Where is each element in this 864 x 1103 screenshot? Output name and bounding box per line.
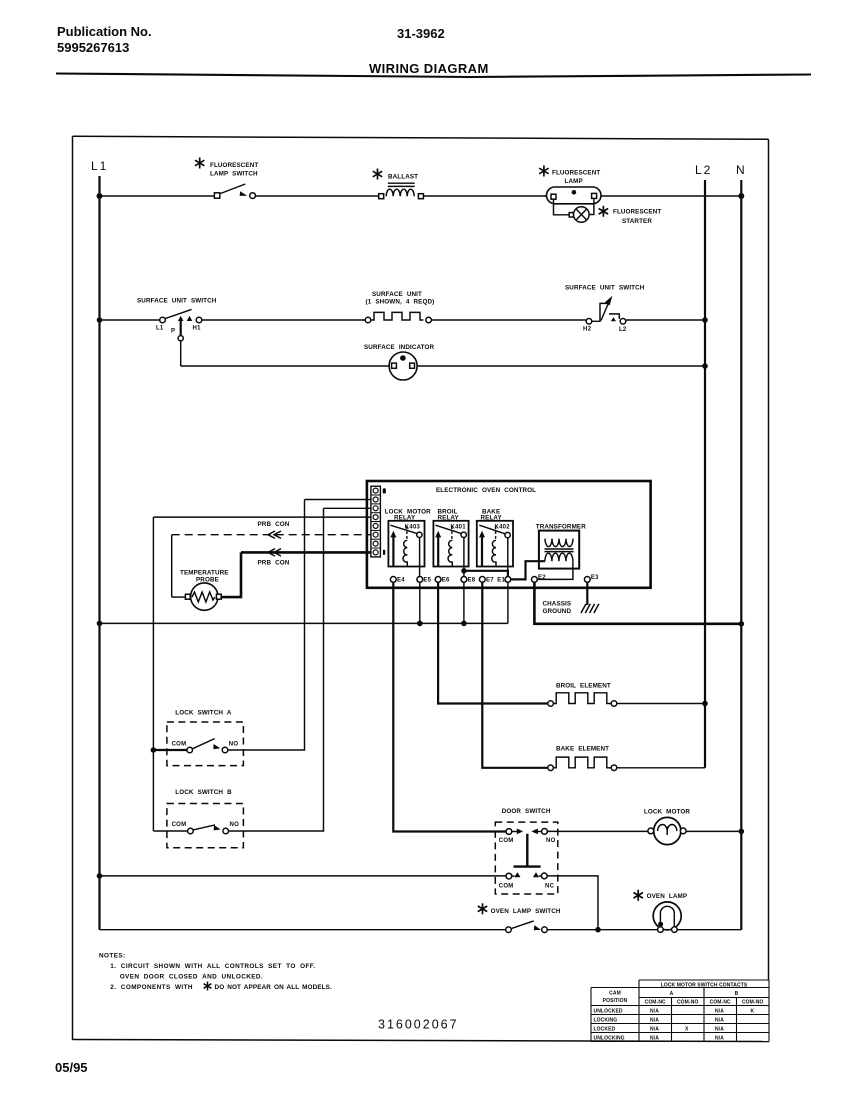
svg-text:DOOR SWITCH: DOOR SWITCH [502, 808, 551, 815]
CIRCUIT2 surface [100, 285, 706, 381]
asterisk oven lamp [634, 890, 643, 901]
wire pin4 riser to lock switches [152, 517, 154, 831]
wire door NO to lock motor [547, 830, 648, 832]
svg-text:N/A: N/A [715, 1008, 724, 1014]
wire E2 to N bus [534, 582, 741, 624]
wire L2 vertical [704, 180, 706, 768]
wire lock switch B NO riser [229, 508, 324, 831]
LOWER WIRES [100, 582, 742, 831]
terminal E6 [435, 577, 441, 583]
svg-text:N/A: N/A [650, 1008, 659, 1014]
svg-text:A: A [670, 991, 674, 997]
junction E5 bus4 [417, 621, 423, 627]
switch lock switch A [187, 747, 193, 753]
svg-text:E3: E3 [591, 575, 599, 581]
svg-text:FLUORESCENT: FLUORESCENT [210, 162, 258, 169]
svg-text:PRB CON: PRB CON [258, 560, 290, 567]
svg-text:B: B [735, 991, 739, 997]
enclosure lock switch A [167, 722, 244, 766]
wire lamp line segment b [547, 929, 657, 931]
wire E8 drop [463, 582, 465, 623]
wire pin2 lead [305, 499, 371, 501]
terminal E5 [417, 577, 423, 583]
svg-text:UNLOCKED: UNLOCKED [594, 1008, 623, 1014]
svg-text:COM: COM [172, 742, 187, 748]
terminal E7 [479, 577, 485, 583]
svg-text:E8: E8 [468, 577, 476, 583]
junction L1 bus1 [97, 193, 103, 199]
svg-text:COM: COM [499, 838, 514, 844]
header rule [56, 74, 811, 78]
asterisk ballast [373, 169, 382, 180]
svg-text:OVEN LAMP SWITCH: OVEN LAMP SWITCH [491, 908, 561, 915]
svg-text:E1: E1 [497, 577, 505, 583]
wire pin8 lead thick [241, 551, 371, 554]
junction lock switch A feed [151, 747, 157, 753]
indicator surface indicator [389, 352, 417, 380]
wire E6 drop to broil element [438, 582, 548, 703]
terminal starter [569, 213, 573, 217]
wire bus1 segment a [100, 195, 215, 197]
svg-text:COM: COM [172, 822, 187, 828]
wire lock motor to N [686, 830, 741, 832]
wire to lock switch B COM [153, 830, 187, 832]
wire K402 contact to E1 [507, 538, 509, 577]
thermistor temperature probe [191, 583, 218, 610]
wire door NC drop to lamp line [547, 876, 598, 930]
svg-text:L1: L1 [156, 325, 164, 331]
svg-text:E2: E2 [538, 575, 546, 581]
junction lamp line [595, 927, 601, 933]
wire bus4 L1 to E1 [100, 622, 508, 624]
svg-text:LOCK MOTOR: LOCK MOTOR [644, 809, 690, 816]
svg-text:N/A: N/A [715, 1026, 724, 1032]
wire bus2 segment b [202, 319, 365, 321]
HEADER [56, 24, 811, 77]
wire K401 contact to E8 [463, 538, 465, 577]
junction E8 bus4 [461, 621, 467, 627]
svg-text:LOCK MOTOR SWITCH CONTACTS: LOCK MOTOR SWITCH CONTACTS [661, 982, 748, 988]
terminal E4 [390, 577, 396, 583]
inductor ballast [379, 194, 384, 199]
junction N bus4 [739, 621, 745, 627]
svg-text:L1: L1 [91, 159, 108, 173]
svg-text:316002067: 316002067 [378, 1018, 459, 1032]
asterisk fluorescent starter [599, 206, 608, 217]
svg-text:NO: NO [229, 742, 239, 748]
connector P1 [371, 486, 381, 557]
junction L1 bus2 [97, 317, 103, 323]
svg-text:2. COMPONENTS WITH: 2. COMPONENTS WITH [110, 984, 193, 991]
wire E1 to transformer [511, 561, 545, 579]
svg-text:POSITION: POSITION [603, 998, 628, 1004]
wire bus1 segment d [601, 195, 741, 197]
svg-text:COM-NO: COM-NO [742, 1000, 763, 1006]
wire pin4 lead [153, 516, 371, 518]
LOCK SWITCHES [151, 500, 324, 848]
wire E3 to chassis ground [586, 582, 588, 605]
junction L2 bus3 [702, 363, 708, 369]
NOTES TABLE FOOTER [55, 953, 769, 1076]
terminal E3 [584, 577, 590, 583]
wire pilot to indicator bus [180, 341, 182, 366]
svg-text:K402: K402 [495, 525, 511, 531]
svg-text:COM-NC: COM-NC [645, 1000, 666, 1006]
svg-text:COM: COM [499, 883, 514, 889]
CIRCUIT1 fluorescent [100, 158, 742, 225]
border left [72, 136, 74, 1040]
junction L2 bus2 [702, 317, 708, 323]
wire L1 vertical [98, 176, 100, 930]
motor lock motor [654, 817, 681, 844]
wire E2 to transformer [537, 561, 573, 579]
wire N vertical [740, 180, 742, 930]
svg-text:LAMP SWITCH: LAMP SWITCH [210, 171, 258, 178]
wire pin6 lead dashed PRB CON [172, 534, 371, 536]
svg-text:N/A: N/A [715, 1017, 724, 1023]
svg-text:K: K [751, 1008, 755, 1014]
switch lock switch B [188, 828, 194, 834]
svg-text:Publication No.: Publication No. [57, 24, 152, 39]
switch surface unit switch right [586, 319, 592, 325]
starter fluorescent starter [574, 207, 590, 223]
wire bus2 segment a [100, 319, 160, 321]
wire bus1 segment b [256, 195, 379, 197]
svg-text:X: X [685, 1026, 689, 1032]
svg-text:L2: L2 [695, 163, 712, 177]
wire probe left vertical [171, 535, 173, 597]
svg-text:N/A: N/A [715, 1035, 724, 1041]
wire bus2 segment c [431, 319, 586, 321]
svg-text:OVEN DOOR CLOSED AND UNLOCKED.: OVEN DOOR CLOSED AND UNLOCKED. [120, 973, 263, 980]
wire L1 to door COM lower [100, 875, 507, 877]
lamp oven lamp [653, 902, 681, 930]
svg-text:CHASSIS: CHASSIS [543, 601, 572, 608]
svg-text:31-3962: 31-3962 [397, 26, 445, 41]
asterisk fluorescent lamp switch [195, 158, 204, 169]
svg-text:E4: E4 [397, 577, 405, 583]
wire bus3 segment b [417, 365, 705, 367]
svg-text:OVEN LAMP: OVEN LAMP [647, 893, 688, 900]
link bar door switch [526, 834, 528, 867]
svg-text:UNLOCKING: UNLOCKING [594, 1035, 625, 1041]
switch surface unit switch left [160, 317, 166, 323]
wire E1 drop to bus4 [507, 582, 509, 623]
svg-text:STARTER: STARTER [622, 218, 652, 225]
svg-text:WIRING DIAGRAM: WIRING DIAGRAM [369, 61, 489, 76]
lamp fluorescent lamp body [547, 187, 602, 204]
terminal E2 [532, 577, 538, 583]
svg-text:BAKE ELEMENT: BAKE ELEMENT [556, 746, 609, 753]
terminal E8 [461, 577, 467, 583]
svg-text:NO: NO [230, 822, 240, 828]
svg-text:NO: NO [546, 838, 556, 844]
junction L1 door line [97, 873, 103, 879]
junction L2 broil line [702, 701, 708, 707]
electronic oven control box U1 [367, 481, 651, 588]
svg-text:PROBE: PROBE [196, 576, 219, 583]
svg-text:H1: H1 [193, 325, 202, 331]
heating element bake [548, 765, 554, 771]
svg-text:LAMP: LAMP [565, 178, 583, 185]
svg-text:TRANSFORMER: TRANSFORMER [536, 523, 586, 530]
junction E8 link [461, 568, 466, 573]
svg-text:LOCK SWITCH A: LOCK SWITCH A [175, 709, 232, 716]
wire E5 drop [419, 582, 421, 623]
wire to lock switch A COM [153, 749, 187, 751]
switch oven lamp switch [506, 927, 512, 933]
svg-text:BROIL ELEMENT: BROIL ELEMENT [556, 683, 611, 690]
wire starter loop left [554, 199, 570, 214]
arrows PRB CON lower [268, 549, 281, 556]
svg-text:COM-NC: COM-NC [710, 1000, 731, 1006]
switch door switch lower pole [506, 873, 512, 879]
svg-text:05/95: 05/95 [55, 1060, 88, 1075]
wire pin3 lead [324, 507, 371, 509]
wire lamp line segment c [677, 929, 741, 931]
svg-text:5995267613: 5995267613 [57, 40, 129, 55]
svg-text:SURFACE INDICATOR: SURFACE INDICATOR [364, 344, 434, 351]
svg-text:E6: E6 [442, 577, 450, 583]
svg-text:SURFACE UNIT SWITCH: SURFACE UNIT SWITCH [565, 285, 645, 292]
svg-text:L2: L2 [619, 327, 627, 333]
junction N bus1 [738, 193, 744, 199]
svg-text:DO NOT APPEAR ON ALL MODELS.: DO NOT APPEAR ON ALL MODELS. [215, 984, 333, 991]
svg-text:LOCKING: LOCKING [594, 1017, 618, 1023]
border top [73, 136, 769, 139]
svg-text:BALLAST: BALLAST [388, 174, 418, 181]
pin label 1 [383, 550, 385, 555]
svg-text:COM-NO: COM-NO [677, 1000, 698, 1006]
heating element broil [548, 701, 554, 707]
svg-text:FLUORESCENT: FLUORESCENT [613, 209, 661, 216]
svg-text:ELECTRONIC OVEN CONTROL: ELECTRONIC OVEN CONTROL [436, 487, 536, 494]
svg-text:K401: K401 [451, 525, 467, 531]
svg-text:1. CIRCUIT SHOWN WITH ALL CONT: 1. CIRCUIT SHOWN WITH ALL CONTROLS SET T… [110, 963, 315, 970]
asterisk fluorescent lamp [539, 166, 548, 177]
wire bus3 segment a [181, 365, 389, 367]
DOOR/MOTOR/LAMP [100, 808, 742, 932]
svg-text:SURFACE UNIT SWITCH: SURFACE UNIT SWITCH [137, 298, 217, 305]
arrows PRB CON upper [268, 531, 281, 538]
wire E4 drop to door switch [393, 582, 506, 831]
border right [768, 139, 770, 980]
switch S1 fluorescent lamp switch [214, 193, 219, 198]
svg-text:PRB CON: PRB CON [258, 521, 290, 528]
junction N lock motor line [739, 829, 745, 835]
wire probe right vertical [221, 552, 241, 597]
lock motor switch contacts table [591, 980, 769, 1042]
svg-text:N/A: N/A [650, 1017, 659, 1023]
wire pilot drop [180, 321, 182, 336]
border bottom [73, 1040, 770, 1042]
svg-text:N/A: N/A [650, 1026, 659, 1032]
terminal pilot [178, 336, 183, 341]
svg-text:H2: H2 [583, 326, 592, 332]
wire K403 contact to E5 [419, 538, 421, 577]
enclosure door switch [495, 822, 558, 894]
wire E7 drop to bake element [482, 582, 548, 768]
chassis ground [581, 604, 599, 613]
svg-text:SURFACE UNIT: SURFACE UNIT [372, 291, 422, 298]
wire E8 to E1 link [464, 571, 508, 577]
svg-text:(1 SHOWN, 4 REQD): (1 SHOWN, 4 REQD) [366, 299, 435, 306]
switch door switch upper pole [506, 829, 512, 835]
wire bus2 segment d [626, 319, 705, 321]
svg-text:E7: E7 [486, 577, 494, 583]
wire bus1 segment c [423, 195, 546, 197]
svg-text:FLUORESCENT: FLUORESCENT [552, 170, 600, 177]
wire starter loop right [589, 199, 594, 215]
svg-text:LOCK SWITCH B: LOCK SWITCH B [175, 789, 232, 796]
heating element surface unit [365, 317, 371, 323]
junction L1 bus4 [97, 621, 103, 627]
svg-text:LOCKED: LOCKED [594, 1026, 616, 1032]
EOC [153, 481, 650, 615]
pin label B [383, 488, 386, 493]
RAILS [91, 159, 745, 930]
wire probe left stub [172, 596, 186, 598]
asterisk oven lamp switch [478, 903, 487, 914]
svg-text:NC: NC [545, 883, 555, 889]
enclosure lock switch B [167, 804, 244, 848]
svg-text:E5: E5 [423, 577, 431, 583]
wire bake to L2 [617, 767, 705, 769]
svg-text:NOTES:: NOTES: [99, 953, 126, 960]
svg-text:CAM: CAM [609, 991, 621, 997]
wire broil to L2 [617, 703, 705, 705]
svg-text:N/A: N/A [650, 1035, 659, 1041]
wire lamp line segment a [100, 929, 506, 931]
svg-text:GROUND: GROUND [543, 608, 572, 615]
wire lock switch A NO riser [228, 500, 305, 751]
svg-text:N: N [736, 163, 745, 177]
svg-text:P: P [171, 329, 175, 335]
